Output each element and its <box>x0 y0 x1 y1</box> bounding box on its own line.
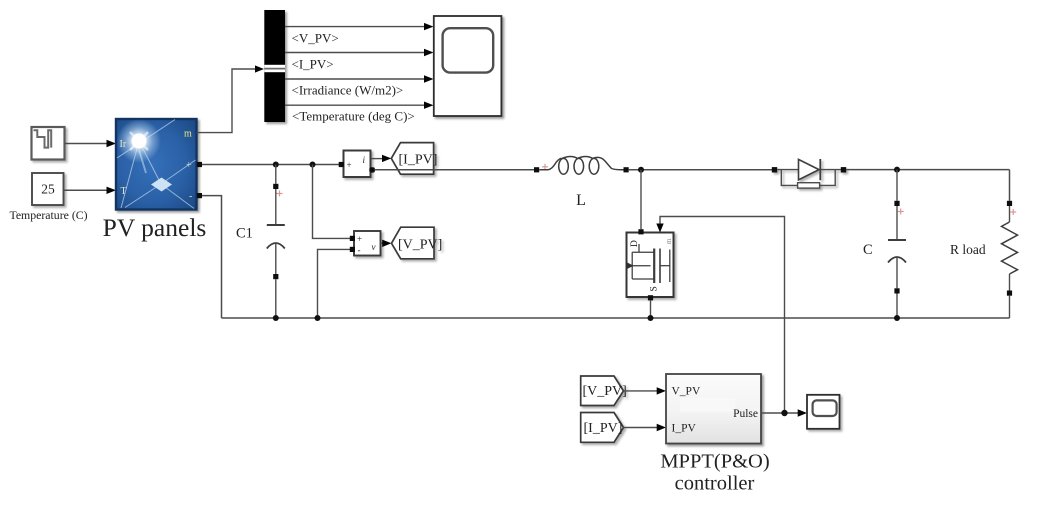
wire MOSFET source to bottom rail <box>650 300 652 318</box>
PV + output port square <box>197 162 202 167</box>
wire voltage sensor - to bottom rail <box>318 249 353 318</box>
signal builder block (irradiance source) <box>32 127 65 160</box>
node C bottom <box>894 315 900 321</box>
svg-text:[V_PV]: [V_PV] <box>583 384 627 399</box>
svg-text:C: C <box>863 242 873 258</box>
pink + inductor <box>542 164 548 170</box>
wire from I_PV to MPPT <box>624 427 659 429</box>
wire sensor i output to goto I_PV <box>371 158 384 160</box>
pink + C <box>898 209 904 215</box>
goto tag [I_PV] <box>391 143 437 175</box>
inductor L coil <box>539 157 623 175</box>
node above C1 <box>273 162 279 168</box>
svg-text:<Irradiance (W/m2)>: <Irradiance (W/m2)> <box>292 82 404 97</box>
PV panels block <box>116 119 197 210</box>
wire signal builder to PV Ir <box>65 143 109 145</box>
wire down to MOSFET drain <box>640 170 642 229</box>
scope Scope1 <box>434 16 502 116</box>
inductor L right terminal <box>624 167 629 172</box>
svg-text:V_PV: V_PV <box>672 386 701 398</box>
arrowhead into MOSFET gate <box>656 224 663 233</box>
svg-text:controller: controller <box>675 473 755 495</box>
arrowhead into PV Ir <box>107 140 117 147</box>
R load branch <box>1009 170 1011 201</box>
svg-text:R load: R load <box>950 242 986 257</box>
svg-text:+: + <box>347 160 352 170</box>
from tag [I_PV] <box>581 413 624 443</box>
capacitor C plates <box>888 239 906 241</box>
svg-text:-: - <box>358 245 361 255</box>
MOSFET source port <box>648 295 653 300</box>
arrowhead into scope2 <box>798 409 807 416</box>
MPPT controller block <box>666 374 761 444</box>
svg-text:L: L <box>576 192 586 209</box>
diode right terminal <box>841 167 846 172</box>
svg-text:+: + <box>357 234 362 244</box>
svg-text:PV panels: PV panels <box>103 213 207 242</box>
svg-text:[I_PV]: [I_PV] <box>399 152 438 167</box>
body diode arrow <box>627 262 634 269</box>
svg-text:<Temperature (deg C)>: <Temperature (deg C)> <box>292 108 415 123</box>
MOSFET drain port <box>638 229 643 234</box>
from tag [V_PV] <box>581 376 627 406</box>
capacitor C1 plates <box>267 224 285 226</box>
svg-text:I_PV: I_PV <box>672 423 697 435</box>
capacitor C branch <box>896 170 898 201</box>
resistor R load zigzag <box>1002 222 1018 274</box>
sun flare <box>117 119 161 163</box>
capacitor C1 branch wires <box>275 165 277 184</box>
panel diagonal light lines <box>117 120 196 209</box>
pink + C1 <box>277 191 283 197</box>
svg-text:m: m <box>665 238 673 244</box>
wire sensor v output to goto V_PV <box>381 242 384 244</box>
inductor L left terminal <box>534 167 539 172</box>
diode cathode wire <box>820 169 841 171</box>
voltage sensor block <box>354 231 381 256</box>
diode anode wire <box>777 169 798 171</box>
bus selector bar <box>264 10 285 122</box>
svg-text:<I_PV>: <I_PV> <box>292 56 334 71</box>
wire diode to output node <box>846 169 1009 171</box>
node C1 bottom <box>273 315 279 321</box>
bright diamond cell <box>151 178 172 192</box>
svg-text:m: m <box>184 129 192 140</box>
wire PV - down to bottom rail <box>202 196 222 318</box>
node V sensor minus on rail <box>315 315 321 321</box>
wire Pulse output <box>761 412 799 414</box>
svg-text:C1: C1 <box>236 225 253 241</box>
node above voltage sensor + <box>310 162 316 168</box>
arrowhead into PV T <box>107 187 117 194</box>
svg-text:[I_PV]: [I_PV] <box>584 421 623 436</box>
MOSFET block <box>627 233 674 298</box>
bottom rail <box>222 317 1010 319</box>
diode cathode bar <box>819 159 821 180</box>
constant block 25 <box>32 173 64 205</box>
current sensor block <box>344 151 371 178</box>
goto tag [V_PV] <box>392 227 443 259</box>
node source on rail <box>648 315 654 321</box>
svg-text:MPPT(P&O): MPPT(P&O) <box>660 450 769 472</box>
svg-text:v: v <box>372 242 376 252</box>
wire inductor to diode <box>629 169 772 171</box>
node pulse junction <box>781 410 787 416</box>
node at inductor/MOSFET junction <box>638 167 644 173</box>
diode left terminal <box>772 167 777 172</box>
svg-text:+: + <box>186 160 192 171</box>
svg-text:S: S <box>650 286 660 291</box>
node above capacitor C <box>894 167 900 173</box>
svg-text:T: T <box>121 186 127 197</box>
diode triangle <box>799 159 820 179</box>
svg-text:[V_PV]: [V_PV] <box>398 237 442 252</box>
gate wire from pulse node <box>660 217 785 414</box>
snubber branch <box>781 170 797 186</box>
wire bus out 2 (I_PV) <box>285 52 426 54</box>
wire PV m to bus selector <box>197 69 257 133</box>
wire constant 25 to PV T <box>64 189 109 191</box>
svg-text:-: - <box>189 191 192 202</box>
svg-text:<V_PV>: <V_PV> <box>292 31 339 46</box>
wire to voltage sensor + <box>313 165 351 239</box>
diode D with snubber <box>772 159 846 188</box>
current sensor - output port <box>369 167 375 172</box>
current sensor + input port <box>339 162 344 167</box>
svg-text:D: D <box>630 240 640 247</box>
voltage sensor + port <box>350 236 355 241</box>
wire bus out 4 (Temperature) <box>285 104 426 106</box>
wire from V_PV to MPPT <box>624 390 659 392</box>
PV - output port square <box>197 193 202 198</box>
scope Scope2 <box>807 395 840 429</box>
svg-text:25: 25 <box>41 182 55 197</box>
pink + R <box>1010 209 1016 215</box>
voltage sensor - port <box>350 247 355 252</box>
svg-text:Temperature (C): Temperature (C) <box>9 208 87 222</box>
wire bus out 3 (Irradiance) <box>285 78 426 80</box>
wire PV + to current sensor (top rail) <box>202 164 339 166</box>
svg-text:Pulse: Pulse <box>733 408 758 420</box>
arrowhead into bus selector <box>255 65 264 72</box>
wire sensor - to inductor (passes under tag) <box>375 169 536 171</box>
svg-text:Ir: Ir <box>120 139 127 150</box>
wire bus out 1 (V_PV) <box>285 26 426 28</box>
